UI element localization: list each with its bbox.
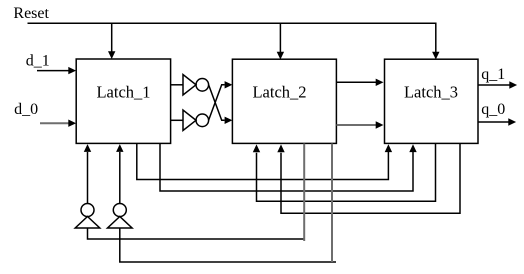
svg-text:q_0: q_0 xyxy=(481,101,505,118)
svg-text:Latch_2: Latch_2 xyxy=(252,83,306,102)
svg-text:Reset: Reset xyxy=(13,5,49,22)
svg-text:Latch_1: Latch_1 xyxy=(96,83,150,102)
svg-text:q_1: q_1 xyxy=(481,66,505,83)
svg-text:d_0: d_0 xyxy=(14,101,38,118)
svg-text:Latch_3: Latch_3 xyxy=(404,83,458,102)
svg-text:d_1: d_1 xyxy=(26,53,50,70)
